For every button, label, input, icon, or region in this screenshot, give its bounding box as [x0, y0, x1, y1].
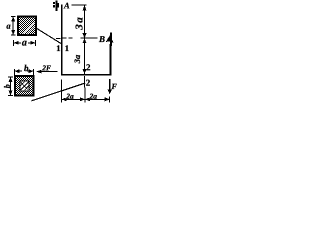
section 1-1 marks — [56, 38, 60, 40]
svg-text:2: 2 — [86, 62, 91, 72]
leader line from square 1 to section 1-1 — [36, 28, 61, 44]
svg-text:3a: 3a — [72, 54, 82, 64]
svg-text:A: A — [63, 0, 70, 10]
svg-text:a: a — [6, 21, 11, 31]
svg-text:2a: 2a — [65, 92, 74, 101]
horizontal dimension a (below square 1) — [14, 40, 36, 46]
svg-text:B: B — [98, 34, 105, 44]
force 2F at bottom-left corner (arrow pointing left) — [37, 71, 58, 73]
main rod: vertical — [61, 5, 63, 76]
B level dash line — [63, 37, 98, 39]
svg-text:1: 1 — [65, 43, 69, 53]
force F at B (half-arrow up on right arm) — [106, 33, 114, 47]
leader line from square 2 to section 2-2 — [32, 83, 86, 101]
force 2F at A (top, double half-arrow up) — [53, 0, 59, 11]
main rod: horizontal bottom — [61, 74, 111, 76]
section 2-2 marks — [84, 63, 86, 73]
svg-text:2: 2 — [86, 78, 91, 88]
top dimension b (above square 2) — [15, 69, 34, 75]
svg-text:b: b — [24, 63, 29, 73]
main rod: right arm — [110, 44, 112, 75]
vertical dimension a (left of square 1) — [11, 17, 16, 36]
svg-text:2F: 2F — [41, 63, 51, 72]
svg-text:1: 1 — [56, 43, 60, 53]
vertical dimension line x=84 — [84, 5, 86, 74]
svg-text:2a: 2a — [88, 92, 97, 101]
svg-text:b: b — [3, 84, 12, 88]
svg-text:F: F — [110, 82, 117, 91]
section square 1 (solid a x a) — [18, 17, 36, 36]
svg-text:a: a — [22, 38, 27, 49]
force F at bottom-right (arrow pointing down) — [109, 79, 111, 93]
left dimension b (left of square 2) — [8, 77, 13, 96]
bottom dimension 2a + 2a — [62, 80, 110, 103]
extension line at A level — [72, 4, 87, 6]
section square 2 (hollow b x b) — [15, 76, 34, 96]
